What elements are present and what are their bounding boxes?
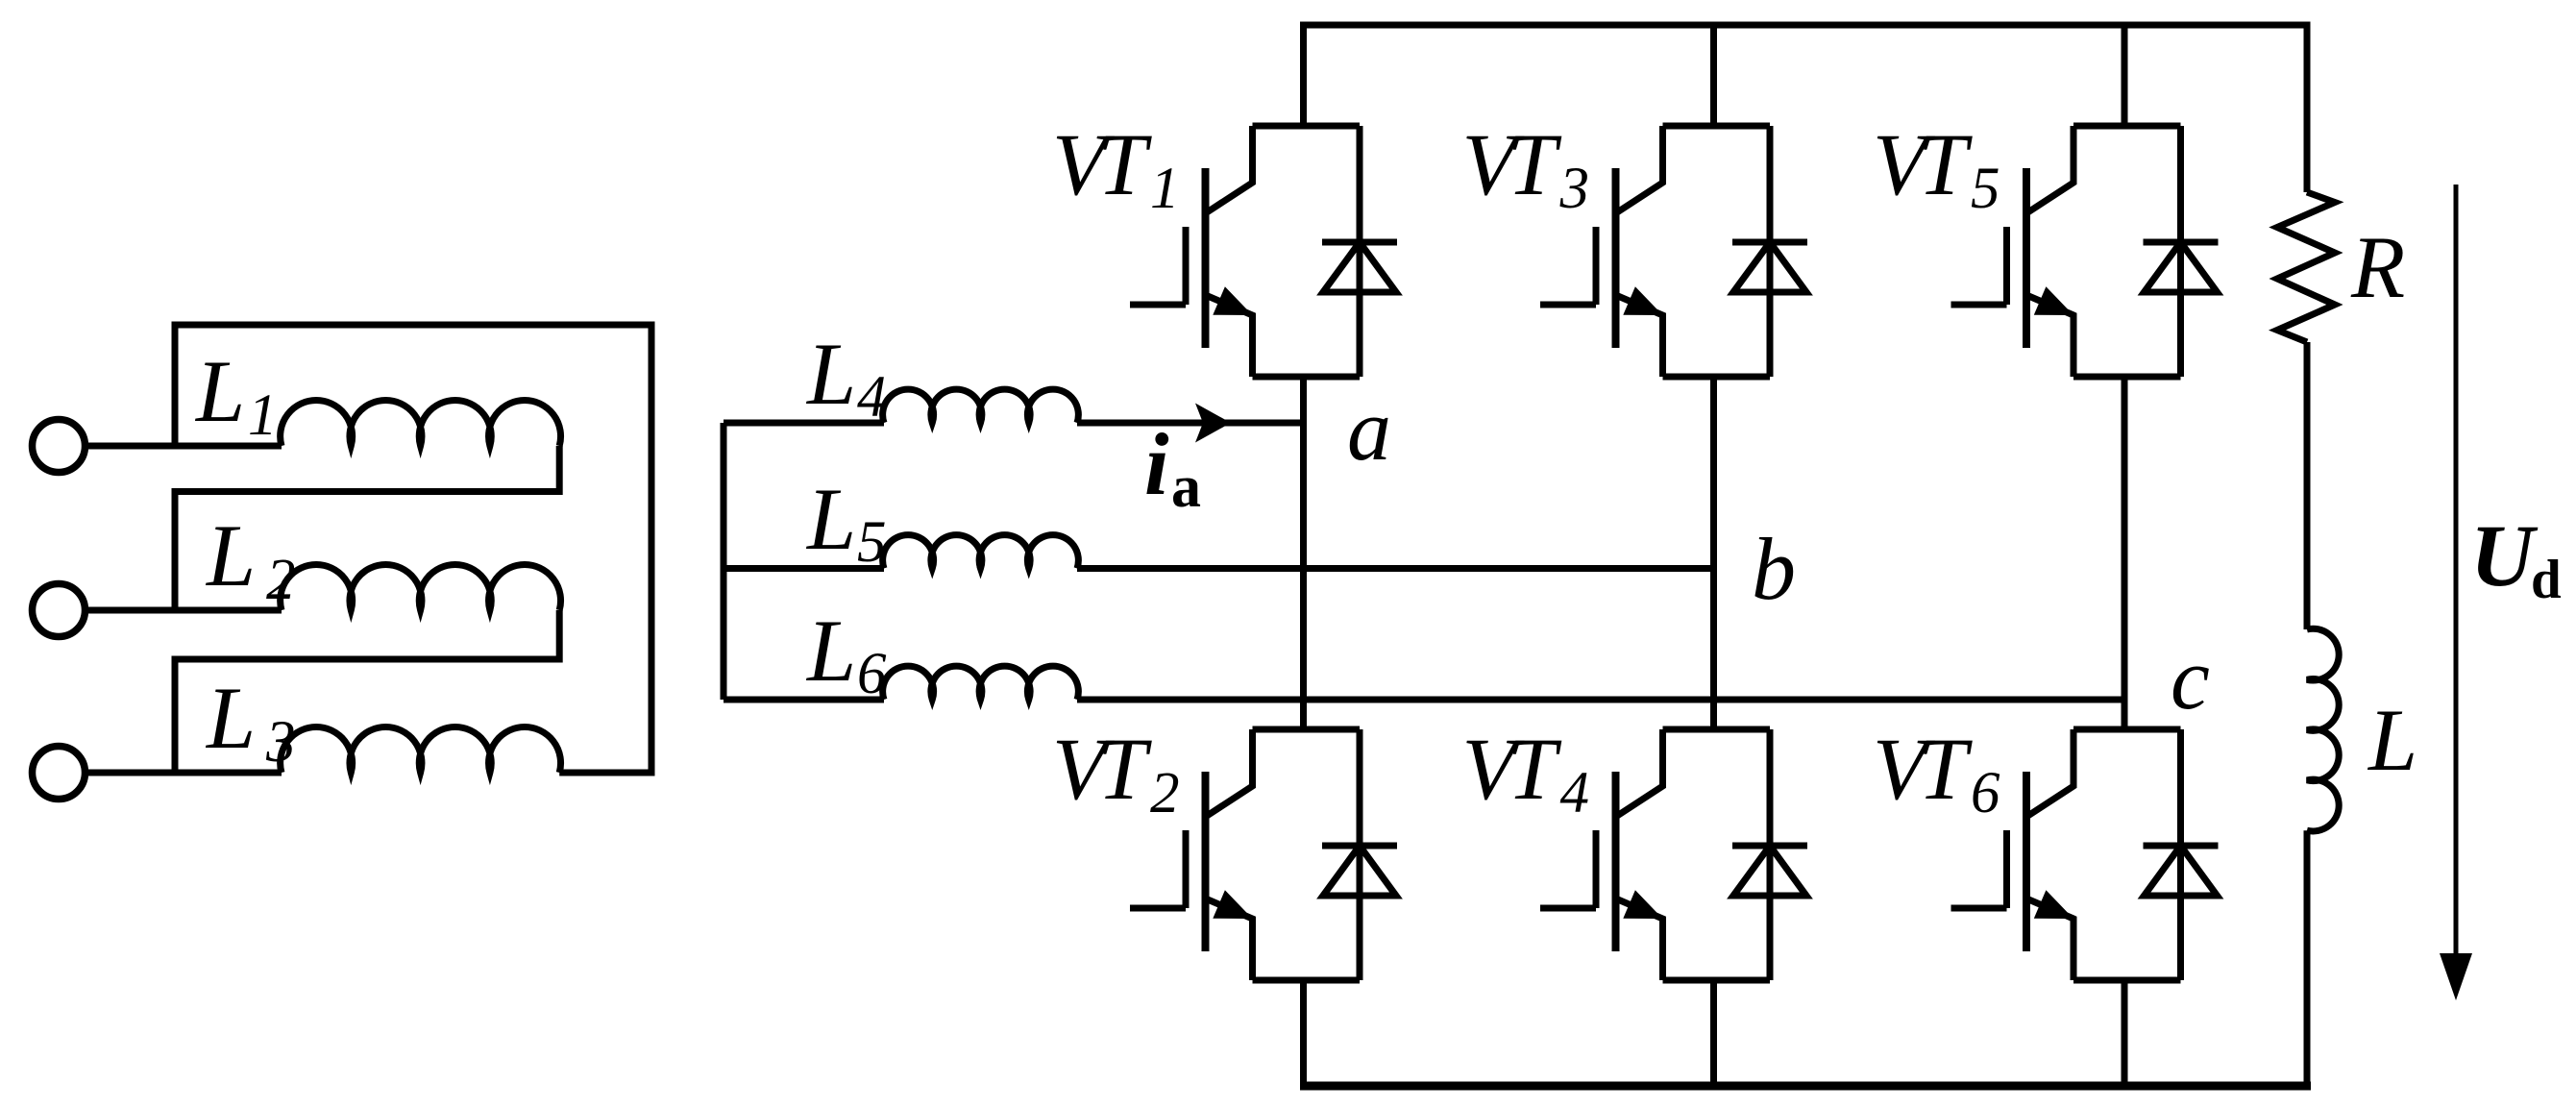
inductor L1 coil [281, 401, 561, 446]
transistor VT5 IGBT body bar [2023, 168, 2030, 348]
svg-text:d: d [2531, 550, 2562, 610]
svg-text:VT: VT [1873, 720, 1973, 818]
transistor VT3 module top edge [1663, 123, 1771, 130]
transistor VT4 IGBT gate bar [1593, 830, 1600, 908]
wire to L6 [724, 697, 884, 703]
wire phase a leg [1300, 377, 1307, 729]
transistor VT4 IGBT emitter lead with arrow [1616, 899, 1663, 980]
svg-text:a: a [1347, 381, 1391, 479]
transistor VT1 module top edge [1253, 123, 1361, 130]
wire L2 to T3 (step) [175, 610, 559, 773]
transistor VT6 antiparallel diode branch [2177, 729, 2184, 980]
transistor VT2 antiparallel diode branch [1357, 729, 1363, 980]
svg-text:5: 5 [857, 510, 887, 575]
inductor L6 coil [883, 666, 1079, 700]
transistor VT3 diode triangle [1733, 242, 1806, 292]
inductor L5 coil [883, 535, 1079, 569]
wire L3 around box back to T1 [175, 325, 651, 773]
transistor VT4 module top edge [1663, 726, 1771, 733]
transistor VT2 IGBT emitter lead with arrow [1206, 899, 1253, 980]
wire phase b leg [1710, 25, 1717, 1088]
transistor VT6 IGBT gate bar [2003, 830, 2010, 908]
wire left vertical joining L4 L5 L6 [721, 423, 727, 700]
transistor VT1 antiparallel diode branch [1357, 126, 1363, 377]
transistor VT5 IGBT gate bar [2003, 227, 2010, 305]
transistor VT5 IGBT collector lead [2026, 126, 2073, 213]
transistor VT3 IGBT emitter lead with arrow [1616, 295, 1663, 377]
voltage Ud reference arrow [2454, 185, 2459, 961]
transistor VT1 IGBT body bar [1202, 168, 1210, 348]
svg-text:L: L [205, 506, 256, 604]
svg-text:3: 3 [265, 710, 296, 775]
wire phase c leg [2122, 25, 2128, 1088]
wire L4 to node a [1077, 420, 1304, 427]
current ia arrow [1195, 404, 1231, 443]
svg-text:5: 5 [1971, 157, 2000, 221]
wire load branch lower lead [2304, 830, 2311, 1088]
transistor VT3 module bottom edge [1663, 374, 1771, 381]
transistor VT6 IGBT gate lead [1951, 905, 2007, 912]
inductor L2 coil [281, 565, 561, 610]
transistor VT4 module bottom edge [1663, 977, 1771, 984]
wire top DC bus [1304, 25, 2308, 192]
transistor VT5 module bottom edge [2073, 374, 2181, 381]
transistor VT3 antiparallel diode branch [1767, 126, 1774, 377]
transistor VT6 diode cathode bar [2144, 843, 2219, 849]
transistor VT4 diode triangle [1733, 846, 1806, 896]
svg-text:VT: VT [1052, 720, 1152, 818]
transistor VT1 module bottom edge [1253, 374, 1361, 381]
resistor R zigzag [2277, 192, 2335, 342]
wire T3 to L3 [86, 770, 282, 776]
wire R to L [2304, 342, 2311, 629]
transistor VT4 IGBT collector lead [1616, 729, 1663, 817]
svg-text:L: L [805, 325, 856, 423]
transistor VT5 diode cathode bar [2144, 239, 2219, 246]
transistor VT3 IGBT collector lead [1616, 126, 1663, 213]
inductor L coil (load) [2307, 628, 2339, 831]
inductor L4 coil [883, 389, 1079, 423]
transistor VT2 diode cathode bar [1322, 843, 1397, 849]
svg-text:L: L [2367, 691, 2417, 789]
svg-text:L: L [805, 602, 856, 700]
wire L1 to T2 (step) [175, 446, 559, 610]
transistor VT3 diode cathode bar [1732, 239, 1807, 246]
transistor VT2 IGBT gate lead [1130, 905, 1186, 912]
transistor VT6 module bottom edge [2073, 977, 2181, 984]
svg-text:VT: VT [1052, 115, 1152, 213]
transistor VT3 IGBT gate lead [1540, 302, 1596, 308]
transistor VT6 IGBT body bar [2023, 772, 2030, 951]
transistor VT2 IGBT gate bar [1183, 830, 1190, 908]
transistor VT4 IGBT gate lead [1540, 905, 1596, 912]
svg-text:3: 3 [1559, 157, 1590, 221]
svg-text:L: L [194, 342, 245, 440]
wire VT2 leg to bottom bus [1300, 980, 1307, 1088]
wire to L4 [724, 420, 884, 427]
transistor VT1 IGBT collector lead [1206, 126, 1253, 213]
transistor VT3 IGBT body bar [1612, 168, 1620, 348]
transistor VT4 diode cathode bar [1732, 843, 1807, 849]
svg-text:6: 6 [1971, 761, 2000, 825]
transistor VT1 diode cathode bar [1322, 239, 1397, 246]
transistor VT6 diode triangle [2145, 846, 2218, 896]
svg-text:b: b [1752, 520, 1796, 618]
wire T1 to L1 [86, 443, 282, 450]
transistor VT2 module bottom edge [1253, 977, 1361, 984]
svg-text:a: a [1171, 455, 1201, 520]
transistor VT1 diode triangle [1323, 242, 1396, 292]
transistor VT5 diode triangle [2145, 242, 2218, 292]
svg-text:VT: VT [1462, 115, 1562, 213]
terminal circle T3 [33, 747, 86, 800]
transistor VT5 antiparallel diode branch [2177, 126, 2184, 377]
svg-text:i: i [1144, 415, 1169, 513]
svg-text:VT: VT [1462, 720, 1562, 818]
svg-text:U: U [2470, 506, 2539, 604]
svg-text:4: 4 [1560, 761, 1590, 825]
transistor VT4 antiparallel diode branch [1767, 729, 1774, 980]
transistor VT6 module top edge [2073, 726, 2181, 733]
wire bottom DC bus [1300, 1082, 2311, 1091]
wire L5 to node b [1077, 565, 1714, 572]
transistor VT6 IGBT collector lead [2026, 729, 2073, 817]
svg-text:L: L [205, 669, 256, 767]
transistor VT1 IGBT emitter lead with arrow [1206, 295, 1253, 377]
wire T2 to L2 [86, 607, 282, 614]
transistor VT5 IGBT emitter lead with arrow [2026, 295, 2073, 377]
transistor VT6 IGBT emitter lead with arrow [2026, 899, 2073, 980]
transistor VT1 IGBT gate lead [1130, 302, 1186, 308]
transistor VT5 IGBT gate lead [1951, 302, 2007, 308]
transistor VT2 IGBT collector lead [1206, 729, 1253, 817]
svg-text:1: 1 [248, 383, 278, 448]
transistor VT5 module top edge [2073, 123, 2181, 130]
transistor VT4 IGBT body bar [1612, 772, 1620, 951]
transistor VT2 module top edge [1253, 726, 1361, 733]
inductor L3 coil [281, 727, 561, 773]
svg-text:R: R [2350, 218, 2405, 316]
transistor VT2 diode triangle [1323, 846, 1396, 896]
svg-text:c: c [2171, 629, 2210, 727]
wire L6 to node c [1077, 697, 2124, 703]
svg-text:1: 1 [1150, 157, 1180, 221]
svg-text:4: 4 [857, 365, 887, 430]
transistor VT2 IGBT body bar [1202, 772, 1210, 951]
svg-text:2: 2 [1150, 761, 1180, 825]
transistor VT1 IGBT gate bar [1183, 227, 1190, 305]
wire to L5 [724, 565, 884, 572]
svg-text:L: L [805, 470, 856, 568]
transistor VT3 IGBT gate bar [1593, 227, 1600, 305]
svg-text:6: 6 [857, 642, 887, 706]
terminal circle T1 [33, 420, 86, 473]
terminal circle T2 [33, 584, 86, 637]
svg-text:2: 2 [266, 548, 296, 612]
svg-text:VT: VT [1873, 115, 1973, 213]
